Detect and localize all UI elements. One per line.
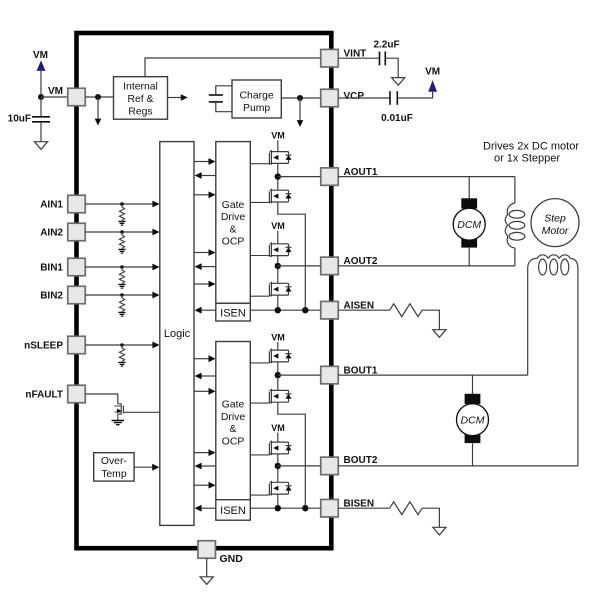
arrow: Gate Drive/ISEN feedback to Logic <box>201 175 216 177</box>
svg-text:Temp: Temp <box>101 469 127 480</box>
capacitor C2 2.2uF on VINT <box>338 57 379 59</box>
pin AOUT2 <box>321 257 339 275</box>
svg-text:OCP: OCP <box>222 237 245 248</box>
ground (below 10uF) <box>34 142 47 150</box>
transistor Q4 A-LS2 <box>269 280 291 297</box>
transistor Q8 B-LS2 <box>269 479 291 496</box>
wire: AOUT2 node to pin <box>278 265 321 267</box>
junction: ISEN A at LS1 leg <box>302 307 308 313</box>
capacitor C1 10uF <box>40 97 42 117</box>
wire: AOUT2 to load <box>338 265 515 267</box>
ground (2.2uF) <box>392 78 405 86</box>
pulldown resistor on AIN1 with ground <box>118 202 125 225</box>
wire: BISEN pin to sense resistor <box>338 507 389 509</box>
arrow: Logic to Gate Drive <box>194 390 209 392</box>
svg-text:BIN1: BIN1 <box>40 263 63 274</box>
svg-text:nFAULT: nFAULT <box>25 390 63 401</box>
junction: ISEN B at LS1 leg <box>302 505 308 511</box>
junction: BOUT2 node <box>275 463 281 469</box>
pulldown resistor on BIN2 with ground <box>118 293 125 316</box>
arrow: Logic to Gate Drive <box>194 252 209 254</box>
junction: VM / 10uF node <box>38 94 44 100</box>
wire: VM stub to FET drain <box>277 140 279 149</box>
wire: VM stub to FET drain <box>277 433 279 440</box>
block: Over-Temp sensor <box>94 453 134 481</box>
junction: VCP internal node <box>297 95 303 101</box>
svg-text:Drive: Drive <box>221 212 245 223</box>
svg-text:or 1x Stepper: or 1x Stepper <box>494 152 560 164</box>
wire: ISEN A rail to AISEN pin <box>250 309 320 311</box>
wire: winding2 right leg to BOUT2 <box>577 269 579 466</box>
ground (BISEN) <box>433 527 446 535</box>
svg-text:Drives 2x DC motor: Drives 2x DC motor <box>483 141 579 153</box>
svg-text:AIN1: AIN1 <box>40 200 63 211</box>
svg-text:ISEN: ISEN <box>220 505 246 517</box>
svg-text:VM: VM <box>425 67 440 78</box>
pin VINT <box>321 49 339 66</box>
wire: VM stub to FET drain <box>277 231 279 241</box>
arrow: Logic to Gate Drive <box>194 194 209 196</box>
junction: AOUT1 node <box>275 173 281 179</box>
svg-text:GND: GND <box>220 553 244 565</box>
wire: B FET3 source to FET4 drain (BOUT2 node) <box>277 456 279 479</box>
IC package boundary <box>77 33 332 548</box>
pin AIN1 <box>68 195 86 213</box>
wire: A FET2 source to ISEN rail <box>278 205 306 311</box>
wire: AOUT1 to load <box>338 176 515 178</box>
wire: B FET4 source to ISEN rail <box>277 497 279 509</box>
svg-text:ISEN: ISEN <box>220 307 246 319</box>
svg-text:2.2uF: 2.2uF <box>373 40 399 51</box>
wire: A FET3 source to FET4 drain (AOUT2 node) <box>277 258 279 280</box>
wire: BOUT2 node to pin <box>278 465 321 467</box>
wire: sense resistor to ground <box>422 310 439 330</box>
svg-text:Drive: Drive <box>221 412 245 423</box>
pin nSLEEP <box>68 336 86 354</box>
transistor: nFAULT open-drain NMOS <box>115 404 122 421</box>
wire: gate drive to Q7 B-HS2 <box>250 454 269 456</box>
junction: ISEN B at FET leg <box>275 505 281 511</box>
block: Charge Pump <box>232 80 281 118</box>
pin BOUT2 <box>321 457 339 475</box>
wire: VM node to VM pin <box>41 96 68 98</box>
wire: gate drive to Q1 A-HS1 <box>250 163 269 165</box>
arrow: internal VM feed (down) <box>97 97 99 120</box>
pin nFAULT <box>68 385 86 403</box>
pin GND <box>198 541 216 559</box>
junction: BOUT1 node <box>275 372 281 378</box>
wire: Logic to nFAULT FET gate <box>123 411 159 413</box>
block: Internal Ref & Regs U_REF <box>114 77 168 120</box>
transistor Q5 B-HS1 <box>269 347 291 364</box>
arrow: VCP gate-supply feed (down) <box>299 98 301 121</box>
svg-text:Logic: Logic <box>164 328 191 340</box>
block: Gate Drive & OCP (bridge A) <box>216 142 251 304</box>
svg-text:Charge: Charge <box>240 91 274 102</box>
svg-text:VM: VM <box>33 50 48 61</box>
wire: AIN2 pin to Logic <box>85 231 153 233</box>
junction: AOUT2 node <box>275 263 281 269</box>
svg-text:Step: Step <box>544 213 566 225</box>
svg-text:VM: VM <box>271 423 285 433</box>
wire: nFAULT pin to open-drain FET <box>85 394 118 404</box>
pin BISEN <box>321 499 339 517</box>
wire: gate drive to Q4 A-LS2 <box>250 295 269 297</box>
transistor Q6 B-LS1 <box>269 388 291 405</box>
svg-text:Pump: Pump <box>243 103 270 114</box>
svg-text:Regs: Regs <box>128 106 152 117</box>
capacitor C3 0.01uF on VCP <box>338 97 390 99</box>
wire: ISEN B rail to BISEN pin <box>250 507 320 509</box>
capacitor: charge pump flying cap <box>216 86 232 112</box>
ground (GND pin) <box>206 558 208 577</box>
wire: winding2 left leg to BOUT1 <box>527 269 529 376</box>
svg-text:VM: VM <box>48 86 63 97</box>
pulldown resistor on BIN1 with ground <box>118 265 125 288</box>
wire: AIN1 pin to Logic <box>85 203 153 205</box>
wire: B FET2 source to ISEN rail <box>278 405 306 509</box>
wire: gate drive to Q3 A-HS2 <box>250 255 269 257</box>
svg-text:&: & <box>230 224 237 235</box>
resistor: BISEN sense <box>390 502 423 515</box>
svg-text:Gate: Gate <box>222 400 245 411</box>
ground (nFAULT FET source) <box>112 421 124 425</box>
wire: sense resistor to ground <box>422 508 439 527</box>
ground (AISEN) <box>433 330 446 338</box>
svg-text:VM: VM <box>271 131 285 141</box>
wire: BOUT2 to load <box>338 465 578 467</box>
transistor Q1 A-HS1 <box>269 149 291 166</box>
pin VCP <box>321 89 339 107</box>
inductor: stepper winding 1 (vertical coil) <box>514 177 516 203</box>
wire: BOUT1 node to pin <box>278 374 321 376</box>
svg-text:Over-: Over- <box>101 456 127 467</box>
svg-text:AIN2: AIN2 <box>40 228 63 239</box>
junction: ISEN A at FET leg <box>275 307 281 313</box>
arrow: Logic to Gate Drive <box>194 452 209 454</box>
wire: gate drive to Q8 B-LS2 <box>250 494 269 496</box>
svg-text:OCP: OCP <box>222 437 245 448</box>
svg-text:&: & <box>230 424 237 435</box>
motor M1 DCM <box>453 198 485 247</box>
pin BIN2 <box>68 286 86 304</box>
motor M3 Step Motor <box>531 199 579 247</box>
wire: gate drive to Q5 B-HS1 <box>250 362 269 364</box>
svg-text:BIN2: BIN2 <box>40 291 63 302</box>
arrow: Gate Drive/ISEN feedback to Logic <box>201 309 216 311</box>
wire: VM stub to FET drain <box>277 342 279 347</box>
resistor: AISEN sense <box>390 304 423 317</box>
wire: BIN1 pin to Logic <box>85 266 153 268</box>
pin AIN2 <box>68 223 86 241</box>
arrow: Gate Drive/ISEN feedback to Logic <box>201 507 216 509</box>
svg-text:Ref &: Ref & <box>128 94 154 105</box>
arrow: Internal Ref & Regs output <box>168 97 182 99</box>
wire: A FET1 source to FET2 drain (AOUT1 node) <box>277 166 279 187</box>
svg-text:0.01uF: 0.01uF <box>381 113 413 124</box>
arrow: Gate Drive/ISEN feedback to Logic <box>201 465 216 467</box>
wire: gate drive to Q6 B-LS1 <box>250 402 269 404</box>
wire: DCM2 branch <box>472 375 474 394</box>
wire: Charge Pump output to VCP pin <box>281 97 320 99</box>
pulldown resistor on nSLEEP with ground <box>118 343 125 366</box>
svg-text:BOUT2: BOUT2 <box>344 455 378 466</box>
transistor Q2 A-LS1 <box>269 187 291 204</box>
wire: AISEN pin to sense resistor <box>338 309 389 311</box>
arrow: Logic to Gate Drive <box>194 484 209 486</box>
pin AOUT1 <box>321 168 339 186</box>
power symbol: VM up-arrow (VCP cap) <box>428 80 437 92</box>
arrow: Gate Drive/ISEN feedback to Logic <box>201 266 216 268</box>
pin VM <box>68 88 86 106</box>
pin BOUT1 <box>321 366 339 384</box>
svg-text:Gate: Gate <box>222 200 245 211</box>
transistor Q3 A-HS2 <box>269 241 291 258</box>
arrow: Logic to Gate Drive <box>194 358 209 360</box>
wire: DCM1 branch <box>468 177 470 199</box>
pin BIN1 <box>68 258 86 276</box>
svg-text:VCP: VCP <box>344 91 365 102</box>
pin AISEN <box>321 301 339 319</box>
wire: AOUT1 node to pin <box>278 176 321 178</box>
inductor: stepper winding 2 (horizontal coil) <box>528 255 578 269</box>
block: ISEN (bridge B) <box>216 500 251 521</box>
pulldown resistor on AIN2 with ground <box>118 230 125 253</box>
svg-text:nSLEEP: nSLEEP <box>24 341 63 352</box>
svg-text:VM: VM <box>271 333 285 343</box>
svg-text:10uF: 10uF <box>8 114 31 125</box>
svg-text:Internal: Internal <box>123 81 158 92</box>
arrow: Logic to Gate Drive <box>194 283 209 285</box>
svg-text:VM: VM <box>271 221 285 231</box>
block: Gate Drive & OCP (bridge B) <box>216 342 251 500</box>
wire: nSLEEP pin to Logic <box>85 344 153 346</box>
wire: Internal Ref & Regs to VINT pin <box>145 58 321 77</box>
wire: BIN2 pin to Logic <box>85 294 153 296</box>
svg-text:Motor: Motor <box>542 225 569 237</box>
arrow: Logic to Gate Drive <box>194 161 209 163</box>
wire: BOUT1 to load <box>338 374 527 376</box>
power symbol: VM up-arrow (top-left) <box>37 60 46 71</box>
wire: VM pin to Internal Ref & Regs <box>85 96 113 98</box>
block: ISEN (bridge A) <box>216 303 251 321</box>
wire: A FET4 source to ISEN rail <box>277 298 279 311</box>
wire: gate drive to Q2 A-LS1 <box>250 201 269 203</box>
wire: Over-Temp to Logic with arrow <box>134 466 153 468</box>
arrow: Gate Drive/ISEN feedback to Logic <box>201 375 216 377</box>
junction: internal VM node <box>95 94 101 100</box>
wire: B FET1 source to FET2 drain (BOUT1 node) <box>277 364 279 387</box>
transistor Q7 B-HS2 <box>269 439 291 456</box>
motor M2 DCM <box>457 394 489 443</box>
block: Logic <box>160 142 194 526</box>
